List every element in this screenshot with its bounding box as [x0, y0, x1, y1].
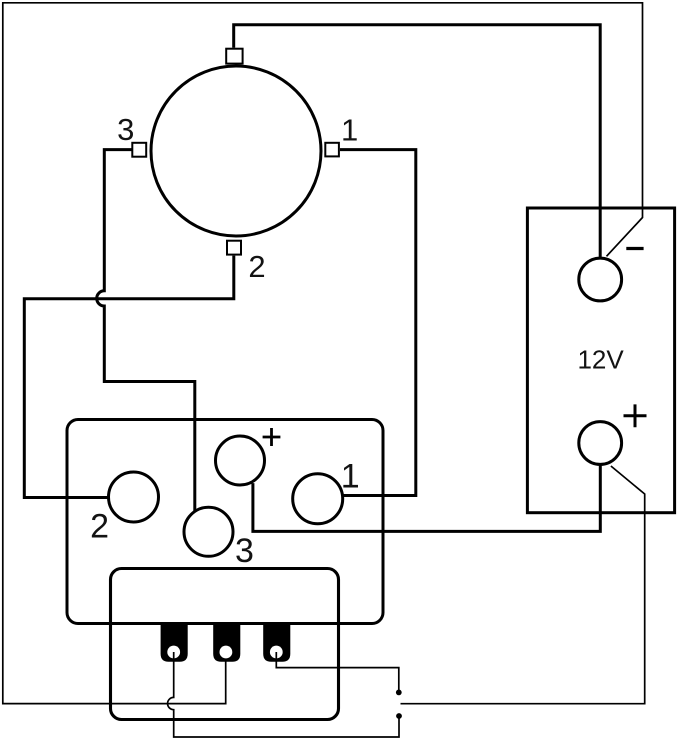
wire: regulator plus circle to battery plus	[253, 464, 600, 531]
svg-text:1: 1	[341, 457, 360, 495]
svg-text:3: 3	[117, 112, 134, 147]
wire: pin 1 to lower plug dot (hop over y703 wire)	[168, 652, 399, 737]
wire: pin 3 to upper plug dot	[276, 652, 399, 690]
wire: motor top terminal to battery minus	[234, 25, 601, 259]
regulator circle plus	[216, 436, 265, 485]
svg-text:3: 3	[235, 532, 254, 570]
connector pin 2 (black)	[213, 623, 240, 662]
battery plus terminal	[579, 422, 622, 465]
connector box	[111, 569, 339, 720]
svg-text:12V: 12V	[577, 345, 624, 375]
regulator box	[67, 420, 383, 624]
regulator circle 1	[293, 474, 343, 524]
battery minus sign	[626, 247, 643, 250]
motor top terminal square	[226, 49, 242, 64]
wire: battery plus diagonal down right side to connector middle stub	[401, 466, 645, 704]
wire: motor terminal 2 to regulator circle 2	[24, 256, 234, 498]
regulator plus sign	[263, 428, 281, 446]
motor bottom terminal square (2)	[227, 241, 241, 255]
battery minus terminal	[579, 258, 622, 301]
motor right terminal square (1)	[325, 143, 339, 157]
connector pin 1 hole	[167, 646, 180, 659]
battery box 12V	[527, 208, 674, 513]
connector pin 3 hole	[270, 646, 283, 659]
svg-text:2: 2	[248, 249, 265, 284]
svg-text:1: 1	[341, 113, 358, 148]
wire: motor terminal 3 to regulator circle 3 (hop over wire 2)	[97, 150, 195, 512]
plug dot lower	[396, 713, 402, 719]
plug dot upper	[396, 690, 402, 696]
connector pin 3 (black)	[263, 623, 290, 662]
connector pin 1 (black)	[161, 623, 188, 662]
regulator circle 2	[109, 472, 159, 522]
battery plus sign	[624, 404, 647, 427]
motor circle	[151, 66, 321, 236]
motor left terminal square (3)	[132, 143, 146, 157]
connector pin 2 hole	[220, 646, 233, 659]
regulator circle 3	[184, 507, 233, 556]
wire: motor terminal 1 to regulator circle 1	[340, 150, 416, 496]
svg-text:2: 2	[90, 508, 109, 546]
